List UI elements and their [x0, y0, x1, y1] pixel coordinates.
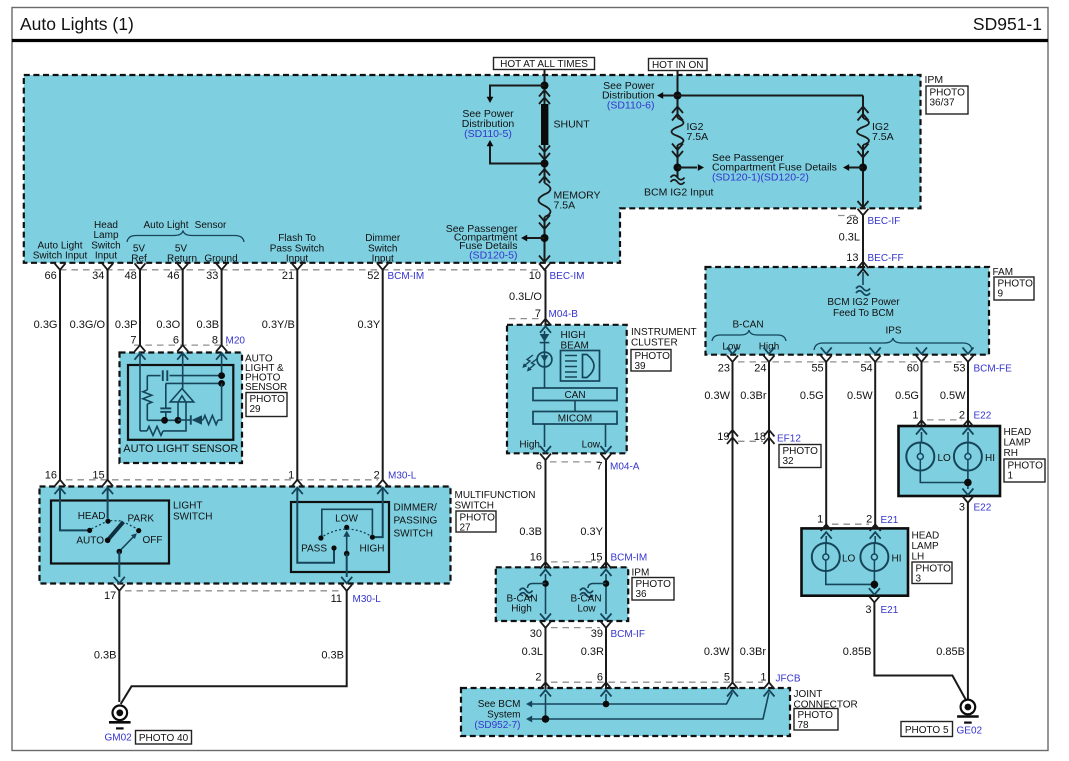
wire JFCB upper bus	[532, 693, 733, 705]
connector M20 pin 6	[177, 345, 188, 352]
svg-text:DIMMER/: DIMMER/	[394, 503, 438, 514]
node LH common	[871, 581, 879, 589]
multifunction photo box 27	[456, 511, 496, 532]
svg-text:JFCB: JFCB	[776, 674, 801, 685]
svg-text:0.5G: 0.5G	[895, 390, 919, 402]
svg-text:PHOTO 40: PHOTO 40	[139, 733, 189, 744]
svg-text:19: 19	[717, 431, 729, 443]
svg-text:7: 7	[130, 335, 136, 347]
node low-top contact	[344, 525, 349, 530]
svg-text:0.3L: 0.3L	[839, 232, 860, 244]
svg-text:0.3G: 0.3G	[34, 319, 58, 331]
svg-text:3: 3	[865, 604, 871, 616]
node HOT AT ALL TIMES	[494, 58, 595, 70]
wire IPM b-can high	[545, 574, 547, 614]
fuse IG2 7.5A right	[857, 118, 869, 145]
svg-text:BCM IG2 Power: BCM IG2 Power	[827, 297, 900, 308]
connector JFCB pin 1 entry	[764, 682, 775, 689]
wire arrow to SD110-6	[663, 95, 678, 97]
wire LH HI feed	[874, 536, 876, 543]
connector chevrons below MEMORY fuse	[539, 215, 550, 222]
node rotor pivot	[105, 538, 111, 544]
connector line BCM-IM/BEC-IM row	[60, 269, 546, 271]
connector chevrons below right IG2 fuse	[858, 144, 869, 151]
connector E22 pin 2 entry	[963, 420, 974, 427]
svg-text:SWITCH: SWITCH	[173, 512, 212, 523]
node RH common	[964, 479, 972, 487]
connector line M20 row	[134, 344, 228, 346]
svg-text:0.3Br: 0.3Br	[740, 390, 767, 402]
svg-text:36/37: 36/37	[930, 98, 955, 109]
svg-text:16: 16	[45, 470, 57, 482]
title separator	[12, 39, 1048, 42]
svg-text:LAMP: LAMP	[1004, 438, 1032, 449]
svg-text:8: 8	[212, 335, 218, 347]
node b-can low	[603, 580, 610, 587]
wire sensor ground pin8 internal	[221, 352, 223, 376]
svg-text:GE02: GE02	[957, 726, 983, 737]
cluster photo box 39	[631, 350, 671, 372]
svg-text:E21: E21	[881, 515, 899, 526]
svg-text:BCM IG2 Input: BCM IG2 Input	[644, 187, 714, 199]
wire bus to right IG2 fuse	[678, 95, 864, 97]
light switch box	[51, 501, 169, 564]
svg-text:0.3B: 0.3B	[196, 319, 219, 331]
LED high beam indicator	[540, 334, 550, 342]
node off-contact	[136, 528, 141, 533]
connector M04-B pin 7 entry	[540, 319, 551, 326]
svg-text:7: 7	[535, 308, 541, 320]
dotted selector arc dimmer	[324, 529, 371, 536]
wire IPM b-can low	[605, 574, 607, 614]
svg-text:21: 21	[282, 270, 294, 282]
svg-text:HEAD: HEAD	[1004, 427, 1032, 438]
svg-text:0.5W: 0.5W	[847, 390, 873, 402]
connector BCM-IM pin 66	[55, 263, 66, 270]
wire return from SD110-5	[487, 140, 494, 146]
connector BCM-IF pin 30 exit	[540, 614, 551, 621]
node sensor D2	[218, 380, 225, 387]
wire H2 branch	[166, 382, 222, 384]
svg-text:B-CAN: B-CAN	[732, 320, 763, 331]
wire 0.3B CAN high	[545, 460, 547, 568]
svg-text:BEC-IM: BEC-IM	[550, 271, 585, 282]
svg-text:BCM-IM: BCM-IM	[388, 271, 425, 282]
svg-text:78: 78	[798, 720, 810, 731]
connector chevrons above left IG2 fuse	[672, 107, 683, 114]
wire 34 head lamp switch input	[107, 270, 109, 480]
wire right IG2 branch	[862, 96, 864, 119]
wire 66 auto light switch input	[59, 270, 61, 480]
wire dimmer inner loop	[322, 509, 373, 538]
wire 16 into light switch	[60, 488, 87, 531]
svg-text:BCM-FE: BCM-FE	[974, 364, 1013, 375]
wire micom high output	[544, 424, 546, 447]
bulb LH LO	[812, 543, 840, 571]
svg-text:16: 16	[530, 552, 542, 564]
EF12 photo box 32	[779, 445, 821, 468]
svg-text:0.3G/O: 0.3G/O	[70, 319, 106, 331]
svg-text:M20: M20	[226, 336, 246, 347]
svg-text:48: 48	[125, 270, 137, 282]
svg-text:Ground: Ground	[204, 254, 237, 265]
svg-text:Low: Low	[577, 604, 596, 615]
svg-text:0.85B: 0.85B	[936, 646, 965, 658]
wire 0.3W b-can low column	[732, 362, 734, 683]
svg-text:HIGH: HIGH	[561, 330, 586, 341]
connector M30-L pin 1 entry	[292, 480, 303, 487]
ground GE02	[957, 700, 979, 723]
node sensor D1	[218, 372, 225, 379]
svg-text:0.3B: 0.3B	[94, 650, 117, 662]
connector line BCM-IF row	[551, 627, 600, 629]
brace B-CAN	[712, 330, 786, 341]
dotted selector arc light switch	[92, 522, 106, 529]
wire 0.3L/O BEC-IM to M04-B	[545, 270, 547, 326]
svg-text:BEC-IF: BEC-IF	[868, 216, 901, 227]
svg-text:0.3L: 0.3L	[522, 646, 543, 658]
connector M20 pin 7	[135, 345, 146, 352]
capacitor C2	[165, 383, 167, 407]
sensor inner box	[128, 365, 233, 440]
svg-text:5: 5	[724, 672, 730, 684]
wire RH bulbs common	[920, 471, 968, 490]
wire pin2 drop	[545, 694, 547, 719]
svg-text:INSTRUMENT: INSTRUMENT	[631, 327, 697, 338]
svg-text:CAN: CAN	[564, 390, 585, 401]
wire 0.3L to JFCB pin 2	[545, 628, 547, 689]
op-amp U1	[170, 389, 194, 402]
node JFCB lower junction	[542, 715, 550, 723]
svg-text:BCM-IM: BCM-IM	[611, 553, 648, 564]
svg-text:1: 1	[760, 672, 766, 684]
svg-text:LOW: LOW	[335, 513, 358, 524]
node b-can high	[542, 580, 549, 587]
connector E21 pin 1 entry	[821, 524, 832, 531]
wire 0.5W to E21 pin2	[874, 362, 876, 529]
svg-text:46: 46	[167, 270, 179, 282]
wire RH LO feed	[921, 432, 923, 443]
connector BCM-IM pin 52	[377, 263, 388, 270]
wire pin6 drop	[605, 694, 607, 704]
svg-text:33: 33	[206, 270, 218, 282]
wire arrow to SD120-1 SD120-2	[678, 167, 698, 169]
svg-text:SD951-1: SD951-1	[973, 14, 1042, 34]
wire FAM IG2 feed	[862, 272, 864, 285]
connector M30-L pin 16 entry	[55, 480, 66, 487]
svg-text:SENSOR: SENSOR	[245, 382, 287, 393]
node junction B1	[674, 92, 682, 100]
icon beam lines	[565, 355, 577, 357]
wire light switch output 17	[118, 552, 120, 578]
svg-text:BEC-FF: BEC-FF	[868, 253, 904, 264]
connector E21 pin 3 exit	[869, 588, 880, 595]
node low-left contact	[318, 535, 323, 540]
svg-text:13: 13	[846, 252, 858, 264]
svg-text:24: 24	[754, 363, 766, 375]
joint connector photo box 78	[794, 709, 838, 731]
connector BCM-FE pin 60 exit	[916, 347, 927, 354]
connector line EF12 row	[738, 440, 763, 442]
svg-text:7.5A: 7.5A	[687, 131, 709, 143]
svg-text:(SD110-6): (SD110-6)	[607, 100, 655, 112]
CAN box	[533, 388, 617, 401]
wire RH HI feed	[967, 432, 969, 443]
svg-text:0.3W: 0.3W	[704, 646, 730, 658]
wire 33 sensor ground	[221, 270, 223, 345]
bulb LH HI	[860, 543, 888, 571]
svg-text:SHUNT: SHUNT	[554, 119, 591, 131]
op-amp legs	[177, 402, 179, 420]
svg-text:0.5W: 0.5W	[940, 390, 966, 402]
wire bottom net H3	[147, 419, 178, 421]
wire dimmer output 11	[346, 554, 348, 577]
wire end waves BCM IG2 input	[671, 175, 685, 180]
svg-text:OFF: OFF	[143, 535, 163, 546]
svg-text:IPS: IPS	[885, 326, 901, 337]
svg-text:PARK: PARK	[128, 514, 155, 525]
svg-text:18: 18	[754, 431, 766, 443]
photo box 5	[901, 722, 953, 737]
svg-text:PASS: PASS	[301, 544, 327, 555]
svg-text:34: 34	[92, 270, 104, 282]
connector M30-L pin 15 entry	[102, 480, 113, 487]
svg-text:EF12: EF12	[777, 434, 801, 445]
svg-text:17: 17	[104, 590, 116, 602]
svg-text:36: 36	[636, 589, 648, 600]
connector E22 pin 1 entry	[916, 420, 927, 427]
sensor photo box 29	[246, 393, 287, 417]
wire micom low output	[605, 424, 607, 447]
connector line E21 row	[832, 523, 869, 525]
IPM lower block	[496, 567, 628, 621]
svg-text:3: 3	[959, 502, 965, 514]
svg-text:60: 60	[907, 363, 919, 375]
twisted pair symbol high	[528, 584, 546, 589]
svg-text:AUTO: AUTO	[76, 536, 104, 547]
switch pole arrow dimmer	[346, 536, 348, 554]
svg-text:High: High	[519, 440, 540, 451]
connector BCM-IM pin 46	[177, 263, 188, 270]
svg-text:MICOM: MICOM	[558, 413, 592, 424]
svg-text:(SD120-1)(SD120-2): (SD120-1)(SD120-2)	[712, 172, 809, 184]
svg-text:Feed To BCM: Feed To BCM	[833, 308, 894, 319]
connector JFCB pin 2 entry	[540, 682, 551, 689]
svg-text:7: 7	[596, 461, 602, 473]
svg-text:LO: LO	[842, 554, 856, 565]
svg-text:52: 52	[367, 270, 379, 282]
node head-contact	[105, 519, 110, 524]
connector chevrons above shunt	[539, 90, 550, 97]
wire 0.3Br b-can high column	[768, 362, 770, 683]
ground GM02	[109, 706, 131, 729]
svg-text:Flash To: Flash To	[278, 233, 316, 244]
svg-text:0.3Y: 0.3Y	[358, 319, 381, 331]
svg-text:High: High	[759, 342, 780, 353]
svg-text:PHOTO 5: PHOTO 5	[905, 725, 949, 736]
joint connector block JFCB	[461, 688, 790, 736]
svg-text:30: 30	[530, 628, 542, 640]
wire 2 into dimmer switch	[374, 488, 383, 537]
svg-text:E22: E22	[974, 503, 992, 514]
svg-text:28: 28	[846, 215, 858, 227]
svg-text:2: 2	[959, 410, 965, 422]
wire 0.3B from light switch to GM02	[118, 591, 120, 702]
svg-text:See BCM: See BCM	[478, 699, 521, 710]
svg-text:Sensor: Sensor	[195, 220, 227, 231]
svg-text:15: 15	[92, 470, 104, 482]
connector line JFCB row	[551, 681, 763, 683]
svg-text:High: High	[511, 604, 532, 615]
wire 52 dimmer switch input	[382, 270, 384, 480]
svg-text:39: 39	[591, 628, 603, 640]
connector chevrons below left IG2 fuse	[672, 144, 683, 151]
connector BEC-FF pin 13 entry to FAM	[858, 262, 869, 269]
connector BCM-IM pin 16 entry	[540, 562, 551, 569]
svg-text:Low: Low	[582, 440, 601, 451]
svg-text:HI: HI	[985, 453, 995, 464]
bulb RH LO	[906, 443, 934, 471]
connector E22 pin 3 exit	[962, 489, 973, 496]
node junction B3	[859, 164, 867, 172]
svg-text:0.3Y: 0.3Y	[580, 526, 603, 538]
svg-text:GM02: GM02	[105, 733, 133, 744]
connector BCM-IM pin 33	[216, 263, 227, 270]
svg-text:M30-L: M30-L	[353, 594, 382, 605]
svg-text:LH: LH	[912, 552, 925, 563]
connector line BCM-IM 16/15 row	[551, 561, 600, 563]
svg-text:0.5G: 0.5G	[800, 390, 824, 402]
wire 46 5V return	[182, 270, 184, 345]
node JFCB upper junction	[603, 701, 610, 708]
svg-text:HEAD: HEAD	[912, 531, 940, 542]
svg-text:0.3B: 0.3B	[321, 650, 344, 662]
svg-text:2: 2	[866, 514, 872, 526]
connector line BEC-IF row	[838, 215, 857, 217]
svg-text:RH: RH	[1004, 448, 1018, 459]
svg-text:0.3W: 0.3W	[704, 390, 730, 402]
wire 1 into dimmer switch	[297, 488, 334, 563]
svg-text:6: 6	[597, 672, 603, 684]
connector BCM-FE pin 54 exit	[870, 347, 881, 354]
wire 0.3L BEC link	[862, 215, 864, 269]
svg-text:0.85B: 0.85B	[843, 646, 872, 658]
capacitor C1 top branch	[147, 375, 160, 377]
svg-text:2: 2	[535, 672, 541, 684]
svg-text:1: 1	[288, 470, 294, 482]
node dimmer common	[344, 551, 350, 557]
svg-text:9: 9	[998, 289, 1004, 300]
svg-text:LAMP: LAMP	[912, 541, 940, 552]
switch rotor thick contact	[108, 522, 124, 540]
FAM block	[706, 267, 990, 355]
svg-text:SWITCH: SWITCH	[455, 501, 494, 512]
connector line BCM-FE row	[738, 361, 962, 363]
IPM photo box 36/37	[926, 86, 968, 114]
connector M30-L pin 17 exit	[114, 577, 125, 584]
svg-text:Switch Input: Switch Input	[33, 251, 88, 262]
connector BCM-FE pin 24 exit	[764, 347, 775, 354]
svg-text:M30-L: M30-L	[388, 471, 417, 482]
svg-text:HEAD: HEAD	[78, 511, 106, 522]
svg-text:Lamp: Lamp	[93, 230, 118, 241]
shunt bar	[541, 104, 548, 145]
connector EF12 pin 19	[727, 430, 738, 437]
svg-text:Input: Input	[372, 254, 394, 265]
wire 0.5G to E21 pin1	[825, 362, 827, 529]
connector BCM-IM pin 48	[135, 263, 146, 270]
svg-text:Auto Lights (1): Auto Lights (1)	[20, 14, 134, 34]
svg-text:10: 10	[529, 270, 541, 282]
resistor R1 left branch	[146, 376, 148, 390]
svg-text:HI: HI	[892, 554, 902, 565]
node auto-contact	[87, 528, 92, 533]
resistor R3 right-bottom	[202, 419, 203, 421]
wire sensor 5V ref pin7 internal	[139, 352, 141, 431]
svg-text:Input: Input	[286, 254, 308, 265]
connector BCM-IM pin 34	[102, 263, 113, 270]
svg-text:Input: Input	[95, 251, 117, 262]
connector BCM-IM pin 21	[292, 263, 303, 270]
MICOM box	[533, 412, 617, 425]
bulb RH HI	[954, 443, 982, 471]
svg-text:11: 11	[331, 593, 342, 605]
svg-text:7.5A: 7.5A	[554, 200, 576, 212]
svg-text:Auto Light: Auto Light	[143, 220, 188, 231]
svg-text:7.5A: 7.5A	[872, 131, 894, 143]
LED light rays	[529, 359, 538, 370]
connector M04-A pin 7 exit	[601, 446, 612, 453]
connector JFCB pin 6 entry	[601, 682, 612, 689]
connector E21 pin 2 entry	[870, 524, 881, 531]
node high-contact	[370, 535, 375, 540]
wire LH LO feed	[825, 536, 827, 543]
twisted pair symbol low	[588, 584, 606, 589]
connector JFCB pin 5 entry	[727, 682, 738, 689]
wire cluster internal from pin7	[544, 331, 546, 388]
wire 0.85B RH to GE02	[967, 503, 969, 699]
connector BCM-IF pin 39 exit	[601, 614, 612, 621]
svg-text:3: 3	[916, 574, 922, 585]
svg-text:0.3L/O: 0.3L/O	[509, 291, 542, 303]
connector M30-L pin 2 entry	[377, 480, 388, 487]
wire 15 into light switch	[107, 488, 109, 519]
connector BEC-IM pin 10 exit	[539, 256, 550, 263]
node HOT IN ON	[649, 59, 708, 71]
connector BCM-FE pin 23 exit	[727, 347, 738, 354]
wire 0.3Y CAN low	[605, 460, 607, 568]
fuse MEMORY 7.5A	[539, 183, 551, 217]
svg-text:0.3R: 0.3R	[581, 646, 604, 658]
wire 21 flash-to-pass	[296, 270, 298, 480]
svg-text:(SD110-5): (SD110-5)	[464, 128, 512, 140]
node junction B2	[674, 164, 682, 172]
connector line M30-L bottom row	[125, 590, 341, 592]
svg-text:(SD120-5): (SD120-5)	[469, 250, 517, 262]
svg-text:1: 1	[817, 514, 823, 526]
svg-text:Ref: Ref	[131, 254, 147, 265]
head lamp RH photo box 1	[1004, 459, 1045, 482]
svg-text:Low: Low	[722, 342, 741, 353]
svg-text:LIGHT: LIGHT	[173, 501, 202, 512]
svg-text:PASSING: PASSING	[394, 516, 438, 527]
svg-text:AUTO LIGHT SENSOR: AUTO LIGHT SENSOR	[123, 443, 238, 455]
svg-text:0.3B: 0.3B	[519, 526, 542, 538]
wire JFCB lower bus	[532, 693, 769, 720]
svg-text:66: 66	[45, 270, 57, 282]
svg-text:Dimmer: Dimmer	[365, 233, 401, 244]
node sensor D4	[175, 417, 182, 424]
